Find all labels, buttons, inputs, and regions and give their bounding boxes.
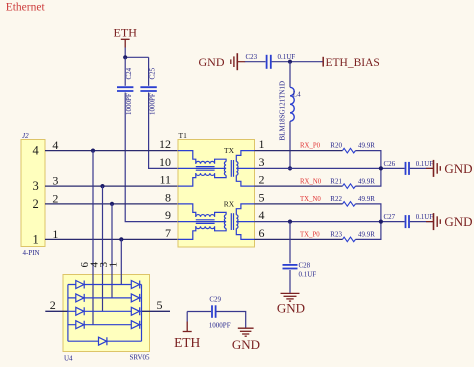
power GND (right of C27) — [426, 213, 440, 230]
svg-text:8: 8 — [165, 190, 171, 204]
wire C24 bottom lead to T1 pin9 — [125, 93, 178, 222]
TVS U4 body — [63, 275, 150, 352]
svg-text:C28: C28 — [299, 262, 311, 270]
svg-text:5: 5 — [157, 298, 163, 312]
wire center tap pin — [178, 167, 226, 169]
wire C25 top lead — [148, 57, 150, 86]
svg-text:11: 11 — [159, 173, 171, 187]
wire sec bottom to pin — [236, 175, 254, 186]
wire pin into choke bottom — [178, 226, 196, 239]
svg-text:GND: GND — [277, 301, 305, 316]
wire center tap pin — [178, 221, 226, 223]
svg-text:C26: C26 — [384, 160, 396, 168]
wire C23 to ETH_BIAS — [272, 61, 323, 63]
svg-text:GND: GND — [232, 337, 260, 352]
resistor R22 — [343, 202, 356, 207]
svg-text:C27: C27 — [384, 213, 396, 221]
svg-text:6: 6 — [259, 226, 265, 240]
row 1 wires — [68, 284, 142, 286]
svg-text:7: 7 — [165, 226, 171, 240]
svg-text:3: 3 — [33, 179, 39, 193]
choke TX bottom winding — [196, 173, 226, 178]
transformer TX left winding — [224, 162, 226, 176]
right bus — [141, 285, 143, 342]
node junction pin4/U4 — [91, 149, 95, 153]
svg-text:1: 1 — [108, 262, 120, 268]
wire pin4 to C27 — [255, 221, 405, 223]
svg-text:49.9R: 49.9R — [358, 231, 375, 239]
node junction ETH split — [123, 55, 127, 59]
wire GND to C23 — [245, 61, 266, 63]
svg-text:RX: RX — [224, 200, 235, 209]
svg-text:TX_P0: TX_P0 — [300, 232, 320, 239]
wire down to U4 pin4 — [102, 186, 104, 311]
svg-text:49.9R: 49.9R — [358, 195, 375, 203]
node junction C26 — [379, 166, 383, 170]
diode D-left row1 — [76, 281, 140, 346]
svg-text:T1: T1 — [179, 131, 188, 140]
wire sec bottom to pin — [236, 228, 254, 239]
svg-text:L4: L4 — [293, 91, 301, 99]
choke TX core — [196, 166, 215, 168]
wire sec top to pin — [236, 204, 254, 215]
node junction top rail — [288, 60, 292, 64]
capacitor C23 — [267, 55, 271, 69]
transformer RX left winding — [224, 215, 226, 229]
wire down to U4 pin3 — [111, 204, 113, 298]
row 2 wires — [68, 297, 142, 299]
wire down to U4 pin6 — [92, 151, 94, 325]
wire pin3 to C26 — [255, 167, 405, 169]
capacitor C27 — [406, 215, 410, 228]
svg-text:49.9R: 49.9R — [358, 177, 375, 185]
port ETH (bottom) — [186, 312, 188, 322]
wire J2 pin2 to T1 pin8 — [45, 203, 178, 205]
svg-text:RX_P0: RX_P0 — [300, 143, 321, 150]
svg-text:ETH: ETH — [114, 26, 138, 40]
choke RX bottom winding — [196, 226, 226, 231]
wire L4 top lead — [289, 62, 291, 88]
transformer TX right winding — [236, 162, 238, 176]
svg-text:1000PF: 1000PF — [209, 321, 231, 329]
resistor R21 — [343, 184, 356, 189]
svg-text:4: 4 — [259, 208, 265, 222]
wire C29 to GND — [216, 312, 245, 328]
port ETH_BIAS — [322, 57, 324, 67]
svg-text:GND: GND — [444, 214, 472, 229]
svg-text:ETH_BIAS: ETH_BIAS — [326, 57, 380, 69]
svg-text:C24: C24 — [125, 67, 133, 79]
pin 5 wire — [142, 310, 171, 312]
svg-text:1000PF: 1000PF — [125, 93, 133, 115]
svg-text:5: 5 — [259, 190, 265, 204]
power GND (right of C26) — [426, 160, 440, 177]
wire C28 bottom lead — [289, 270, 291, 293]
wire C27 to GND — [410, 221, 433, 223]
wire L4 bottom lead — [289, 121, 291, 168]
capacitor C28 — [283, 265, 298, 269]
svg-text:GND: GND — [444, 161, 472, 176]
svg-text:SRV05: SRV05 — [130, 354, 151, 362]
wire J2 pin3 to T1 pin11 — [45, 185, 178, 187]
svg-text:C25: C25 — [149, 67, 157, 79]
ground symbol (bottom) — [238, 328, 254, 336]
wire pin2 RX_N0 — [255, 185, 343, 187]
transformer TX core — [230, 160, 232, 177]
wire pin into choke top — [178, 151, 196, 164]
capacitor C25 — [140, 87, 156, 91]
node junction L4 to center tap — [288, 166, 292, 170]
node junction pin2/U4 — [110, 202, 114, 206]
ground symbol below C28 — [281, 293, 300, 301]
wire ETH stem — [124, 48, 126, 58]
svg-text:2: 2 — [259, 173, 265, 187]
RX choke + transformer — [178, 204, 255, 240]
svg-text:J2: J2 — [22, 132, 29, 140]
diode bottom TVS — [99, 337, 107, 345]
transformer RX core — [230, 213, 232, 230]
svg-text:49.9R: 49.9R — [358, 142, 375, 150]
svg-text:0.1UF: 0.1UF — [299, 270, 317, 278]
node junction pin1/U4 — [119, 237, 123, 241]
svg-text:TX: TX — [224, 146, 235, 155]
wire pin6 TX_P0 — [255, 238, 343, 240]
wire J2 pin1 to T1 pin7 — [45, 238, 178, 240]
svg-text:0.1UF: 0.1UF — [416, 214, 433, 221]
svg-text:4: 4 — [33, 144, 40, 158]
left bus — [67, 285, 69, 342]
wire ETH branch to C25 — [125, 56, 148, 58]
choke RX top winding — [196, 212, 226, 217]
svg-text:12: 12 — [159, 137, 171, 151]
svg-text:BLM18SG121TN1D: BLM18SG121TN1D — [278, 81, 286, 141]
svg-text:GND: GND — [199, 55, 225, 69]
svg-text:1: 1 — [33, 232, 39, 246]
svg-text:0.1UF: 0.1UF — [416, 161, 433, 168]
node junction C27 — [379, 220, 383, 224]
connector J2 body — [21, 140, 45, 247]
svg-text:R23: R23 — [330, 231, 342, 239]
TX choke + transformer — [178, 151, 255, 187]
wire ETH to C29 — [187, 311, 211, 313]
wire pin into choke bottom — [178, 173, 196, 186]
svg-text:R21: R21 — [330, 177, 342, 185]
port ETH (top) — [121, 39, 130, 47]
svg-text:R22: R22 — [330, 195, 342, 203]
diode D-right column — [131, 281, 139, 289]
svg-text:4-PIN: 4-PIN — [23, 249, 40, 257]
wire C24 top lead — [124, 57, 126, 86]
wire sec top to pin — [236, 151, 254, 162]
wire R22 to join — [356, 204, 381, 222]
svg-text:R20: R20 — [330, 142, 342, 150]
wire sec tap to pin — [236, 167, 254, 169]
svg-text:Ethernet: Ethernet — [6, 1, 46, 13]
wire down to U4 pin1 — [120, 239, 122, 284]
wire J2 pin4 to T1 pin12 — [45, 150, 178, 152]
resistor R20 — [343, 148, 356, 153]
capacitor C29 — [212, 305, 216, 318]
choke RX core — [196, 219, 215, 221]
svg-text:RX_N0: RX_N0 — [300, 178, 322, 185]
bottom rail — [68, 340, 142, 342]
wire R20 to join — [356, 151, 381, 169]
svg-text:0.1UF: 0.1UF — [278, 53, 296, 61]
wire pin into choke top — [178, 204, 196, 217]
resistor R23 — [343, 237, 356, 242]
U4 internals — [68, 285, 142, 342]
choke TX top winding — [196, 159, 226, 164]
svg-text:3: 3 — [259, 155, 265, 169]
svg-text:2: 2 — [33, 197, 39, 211]
wire pin5 TX_N0 — [255, 203, 343, 205]
svg-text:1000PF: 1000PF — [149, 93, 157, 115]
svg-text:U4: U4 — [64, 355, 73, 363]
node junction C28 tap — [288, 220, 292, 224]
wire pin1 RX_P0 — [255, 150, 343, 152]
svg-text:C23: C23 — [246, 53, 258, 61]
inductor L4 — [290, 87, 294, 121]
svg-text:2: 2 — [50, 298, 56, 312]
capacitor C24 — [117, 87, 133, 91]
pin 2 wire — [45, 310, 68, 312]
wire R21 to join — [356, 168, 381, 186]
svg-text:C29: C29 — [209, 296, 221, 304]
wire C25 bottom lead to T1 pin10 — [149, 93, 178, 169]
svg-text:1: 1 — [259, 137, 265, 151]
wire sec tap to pin — [236, 221, 254, 223]
wire C26 to GND — [410, 167, 433, 169]
svg-text:10: 10 — [159, 155, 171, 169]
wire C28 top lead — [289, 222, 291, 264]
row 3 wires — [68, 310, 142, 312]
svg-text:TX_N0: TX_N0 — [300, 196, 321, 203]
row 4 wires — [68, 324, 142, 326]
svg-text:9: 9 — [165, 208, 171, 222]
transformer RX right winding — [236, 215, 238, 229]
node junction pin3/U4 — [100, 184, 104, 188]
capacitor C26 — [406, 162, 410, 175]
wire R23 to join — [356, 222, 381, 240]
transformer T1 body — [178, 140, 255, 248]
svg-text:ETH: ETH — [174, 335, 200, 350]
